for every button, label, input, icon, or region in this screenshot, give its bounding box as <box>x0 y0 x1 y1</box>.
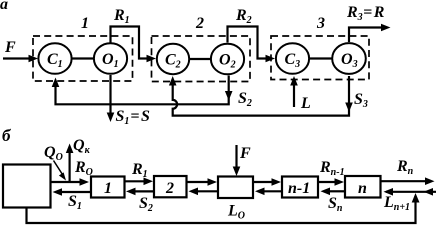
settler O1 <box>94 43 127 74</box>
wire R1 <box>125 178 154 186</box>
heat Qo arrow <box>54 161 67 181</box>
wire C3-O3 <box>309 57 332 59</box>
solvent L arrow <box>290 76 298 107</box>
svg-text:n: n <box>358 180 367 197</box>
wire L0 bottom return <box>27 193 420 223</box>
block n <box>345 176 381 198</box>
svg-text:Qк: Qк <box>73 137 91 156</box>
wire S3 return with hop <box>169 76 353 116</box>
mixer C2 <box>157 44 189 74</box>
wire S1 <box>53 188 92 196</box>
svg-text:2: 2 <box>165 180 174 197</box>
wire C2-O2 <box>189 58 211 60</box>
label Sn <box>328 195 343 214</box>
stage 1 dashed box <box>33 36 133 81</box>
svg-text:QO: QO <box>44 144 63 163</box>
label Qo <box>44 144 63 163</box>
stage 2 dashed box <box>152 36 251 82</box>
svg-text:S3: S3 <box>354 91 368 110</box>
label S2 <box>139 195 153 214</box>
svg-text:Sn: Sn <box>328 195 343 214</box>
wire S4 <box>255 188 282 196</box>
svg-text:S1=S: S1=S <box>116 108 151 127</box>
svg-text:LO: LO <box>227 203 245 222</box>
svg-text:S1: S1 <box>68 193 82 212</box>
svg-text:RO: RO <box>74 159 93 178</box>
figure label b <box>2 126 12 145</box>
wire Rn-1 <box>318 178 344 186</box>
label R1 <box>131 161 148 180</box>
svg-text:F: F <box>4 39 16 56</box>
svg-text:R2: R2 <box>235 7 252 26</box>
label RO <box>74 159 93 178</box>
svg-text:S2: S2 <box>139 195 153 214</box>
svg-text:1: 1 <box>81 15 89 32</box>
svg-text:R1: R1 <box>113 7 130 26</box>
settler O2 <box>211 44 244 75</box>
svg-text:2: 2 <box>195 15 204 32</box>
svg-text:Rn: Rn <box>396 158 414 177</box>
svg-text:R3=R: R3=R <box>346 4 385 23</box>
label Ln+1 <box>383 194 410 213</box>
wire S1 product <box>107 75 115 122</box>
feed F arrow <box>3 55 38 63</box>
label Rn <box>396 158 414 177</box>
svg-text:а: а <box>0 0 8 13</box>
wire Ln+1 input <box>384 188 436 196</box>
label R3 = R <box>346 4 385 23</box>
label S3 <box>354 91 368 110</box>
label L <box>300 95 311 112</box>
stage 3 label <box>316 15 325 32</box>
block n-1 <box>282 177 318 198</box>
label R2 <box>235 7 252 26</box>
feed F arrow <box>233 145 241 176</box>
label S1 = S <box>116 108 151 127</box>
block 2 <box>154 176 187 197</box>
wire R3 <box>253 178 281 186</box>
svg-text:б: б <box>2 126 12 145</box>
stage 2 label <box>195 15 204 32</box>
block 1 <box>91 177 125 198</box>
label LO <box>227 203 245 222</box>
wire R2 <box>228 27 276 63</box>
svg-text:L: L <box>300 95 311 112</box>
label Qk <box>73 137 91 156</box>
svg-text:3: 3 <box>316 15 325 32</box>
wire S3 <box>189 188 219 196</box>
svg-text:F: F <box>239 145 251 162</box>
wire R2 <box>187 178 218 186</box>
svg-text:Rn-1: Rn-1 <box>319 159 345 178</box>
svg-text:1: 1 <box>104 180 112 197</box>
svg-text:R1: R1 <box>131 161 148 180</box>
label Rn-1 <box>319 159 345 178</box>
wire R3 output <box>349 24 391 42</box>
label F <box>4 39 16 56</box>
wire Rn output <box>381 177 435 185</box>
svg-text:S2: S2 <box>238 90 252 109</box>
label S2 <box>238 90 252 109</box>
stage 3 dashed box <box>271 36 369 80</box>
wire S2 <box>126 188 154 196</box>
heat Qk arrow <box>66 144 74 183</box>
svg-text:Ln+1: Ln+1 <box>383 194 410 213</box>
label R1 <box>113 7 130 26</box>
label F <box>239 145 251 162</box>
figure label a <box>0 0 8 13</box>
wire S2 return <box>52 76 233 105</box>
feed block <box>218 177 253 199</box>
wire Sn <box>321 188 346 196</box>
mixer C1 <box>38 43 71 74</box>
svg-text:n-1: n-1 <box>288 180 310 197</box>
settler O3 <box>332 43 366 74</box>
stage 1 label <box>81 15 89 32</box>
wire RO <box>51 178 89 186</box>
mixer C3 <box>276 43 309 74</box>
wire R1 <box>111 27 157 63</box>
condenser square <box>3 165 51 208</box>
wire C1-O1 <box>71 57 94 59</box>
label S1 <box>68 193 82 212</box>
